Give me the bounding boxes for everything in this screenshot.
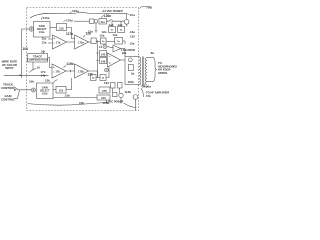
gain select U101b <box>37 83 54 99</box>
svg-text:SPKRS: SPKRS <box>158 71 167 75</box>
svg-text:COMPENSATION: COMPENSATION <box>27 58 48 62</box>
block 275b lower <box>97 95 110 100</box>
block 118a resistor <box>91 38 96 44</box>
svg-text:13b: 13b <box>65 94 70 98</box>
wire to 125a <box>106 41 115 43</box>
svg-text:INPUT: INPUT <box>5 66 14 70</box>
dashed amplifier enclosure box <box>27 8 139 111</box>
wire track control <box>14 87 32 91</box>
svg-text:21a: 21a <box>101 21 106 24</box>
svg-text:119b: 119b <box>67 62 74 66</box>
svg-text:30a: 30a <box>122 51 127 55</box>
op-amp A1a <box>53 35 67 49</box>
svg-text:10b: 10b <box>29 80 34 84</box>
connector J1 <box>133 95 138 100</box>
wire 125a out <box>123 41 126 44</box>
svg-text:12a: 12a <box>100 34 105 38</box>
wire vert b2 <box>119 88 121 93</box>
summer S4 <box>31 88 35 92</box>
svg-text:14b: 14b <box>41 74 46 78</box>
svg-text:15b: 15b <box>146 94 151 98</box>
svg-text:132: 132 <box>130 35 135 39</box>
wire to xfmr top <box>125 55 140 57</box>
block 215a <box>57 24 67 31</box>
svg-text:215: 215 <box>59 26 64 30</box>
svg-text:3a: 3a <box>131 72 135 76</box>
block 135a <box>128 65 133 71</box>
svg-text:1a3: 1a3 <box>109 23 114 27</box>
svg-text:126a: 126a <box>104 14 111 18</box>
block 126a-2 <box>99 19 107 25</box>
svg-text:120a: 120a <box>72 9 79 13</box>
wire connector down <box>135 99 137 110</box>
wire secondary top <box>147 57 153 59</box>
wire amp input stubs <box>48 39 53 43</box>
output brace <box>153 57 157 82</box>
block 132a <box>118 27 125 33</box>
output amp A3 <box>108 53 121 67</box>
node 70a leader <box>140 6 147 8</box>
gain select U101a <box>34 22 51 38</box>
node 115a leader <box>41 17 42 20</box>
svg-text:140: 140 <box>101 52 106 56</box>
wire 215b out <box>66 78 72 90</box>
op-amp A1b <box>52 64 66 78</box>
svg-text:17b: 17b <box>56 69 61 73</box>
svg-text:101b: 101b <box>42 92 48 95</box>
svg-text:30a: 30a <box>146 85 151 89</box>
block 126a-1 <box>90 19 95 24</box>
block 124b <box>100 75 106 81</box>
block 215b <box>56 86 66 93</box>
op-amp A2b <box>75 64 89 78</box>
wire bottom leader arc <box>28 103 109 106</box>
svg-text:115a: 115a <box>43 16 50 20</box>
svg-text:215: 215 <box>101 96 106 100</box>
wire secondary bottom <box>147 81 153 83</box>
trace compensation box <box>28 54 48 63</box>
wire lower rail <box>53 97 97 99</box>
svg-text:-13a: -13a <box>129 30 135 34</box>
node 126a leader <box>101 15 104 17</box>
svg-text:113b: 113b <box>125 90 132 94</box>
wire A2a output <box>89 41 92 43</box>
block 135b <box>118 83 123 89</box>
block 118b <box>91 75 97 81</box>
wire input arrow <box>4 74 49 76</box>
block 124a <box>101 38 107 44</box>
summer S3 <box>105 68 109 72</box>
block 131b <box>113 93 118 97</box>
wire input vertical bus <box>21 29 23 78</box>
svg-text:146: 146 <box>101 59 106 63</box>
wire A2b out <box>89 71 98 78</box>
wire 215a output <box>67 28 75 39</box>
svg-text:110b: 110b <box>128 80 135 84</box>
resistor R134a <box>128 58 132 62</box>
node j1 <box>96 41 100 43</box>
wire to xfmr bottom <box>125 84 140 86</box>
block 146 <box>100 58 107 64</box>
wire gain b out <box>53 89 56 91</box>
svg-text:172b: 172b <box>78 69 84 73</box>
block 140 <box>100 51 107 57</box>
wire sum to buffer <box>107 47 113 48</box>
svg-text:117a: 117a <box>66 32 73 36</box>
svg-text:3b: 3b <box>151 51 155 55</box>
svg-text:172a: 172a <box>78 40 84 44</box>
svg-text:70a: 70a <box>146 6 152 10</box>
svg-text:12a: 12a <box>102 30 107 34</box>
wire gain to 215a <box>50 27 57 29</box>
wire q down <box>126 24 128 26</box>
wire comp out <box>48 58 53 68</box>
node 176a leader <box>64 20 66 21</box>
transformer T1 secondary <box>145 58 146 85</box>
svg-text:CONTROL: CONTROL <box>1 97 15 101</box>
wire gnd drop <box>95 23 97 30</box>
wire vcc rail drop <box>126 13 128 19</box>
wire amp out <box>121 59 126 61</box>
summer S2 <box>103 45 107 49</box>
svg-text:CONTROL: CONTROL <box>1 86 15 90</box>
wire gain control <box>14 90 20 98</box>
svg-text:8 VDC POWER: 8 VDC POWER <box>106 101 124 104</box>
leader to corner <box>124 103 137 108</box>
wire 120a long conductor <box>30 12 127 18</box>
wire box drops <box>112 21 121 26</box>
svg-text:101a: 101a <box>39 31 45 34</box>
transistor Q113b <box>119 93 123 97</box>
wire input to summer <box>22 28 30 30</box>
block 125a <box>115 38 123 45</box>
svg-text:17a: 17a <box>56 40 61 44</box>
op-amp A2a <box>75 35 89 49</box>
block 275b upper <box>99 87 110 93</box>
svg-text:1Ca: 1Ca <box>130 13 136 17</box>
node 166 leader <box>44 51 46 53</box>
svg-text:12b: 12b <box>79 101 84 105</box>
block 123a <box>109 27 116 33</box>
svg-text:12a: 12a <box>113 33 118 37</box>
svg-text:1a2: 1a2 <box>118 23 123 27</box>
svg-text:16: 16 <box>41 50 45 54</box>
wire buffer out <box>121 48 126 50</box>
svg-text:12b: 12b <box>45 79 50 83</box>
wire A1b to A2b <box>66 70 75 72</box>
wire A1a to A2a <box>67 41 75 43</box>
svg-text:13a: 13a <box>130 42 135 46</box>
wire rail feed <box>74 20 90 22</box>
transformer T1 primary <box>140 57 141 85</box>
block 133b <box>111 83 116 89</box>
svg-text:215: 215 <box>59 89 64 93</box>
wire to sum <box>106 67 109 78</box>
svg-text:14: 14 <box>99 45 103 49</box>
svg-text:134: 134 <box>104 81 109 85</box>
svg-text:13a: 13a <box>42 41 47 45</box>
wire q113b down <box>120 98 122 104</box>
svg-text:+12 VDC POWER: +12 VDC POWER <box>102 9 123 13</box>
junction circle <box>94 20 98 24</box>
svg-text:104: 104 <box>23 47 29 51</box>
svg-text:12a: 12a <box>88 30 93 34</box>
transistor Q118a <box>124 19 129 24</box>
transformer T1 core <box>142 57 144 86</box>
wire out rail <box>124 49 126 85</box>
buffer amp small <box>113 45 121 52</box>
wire j2 <box>96 77 100 79</box>
summing node S1 <box>29 27 33 31</box>
svg-text:275: 275 <box>102 89 107 93</box>
wire secondary curve <box>141 88 144 97</box>
wire chain bus vertical <box>96 44 98 78</box>
wire q to boxes <box>107 20 125 21</box>
svg-text:176a: 176a <box>66 18 73 22</box>
wire comp feedback <box>32 62 34 70</box>
wire vert b1 <box>112 88 114 93</box>
